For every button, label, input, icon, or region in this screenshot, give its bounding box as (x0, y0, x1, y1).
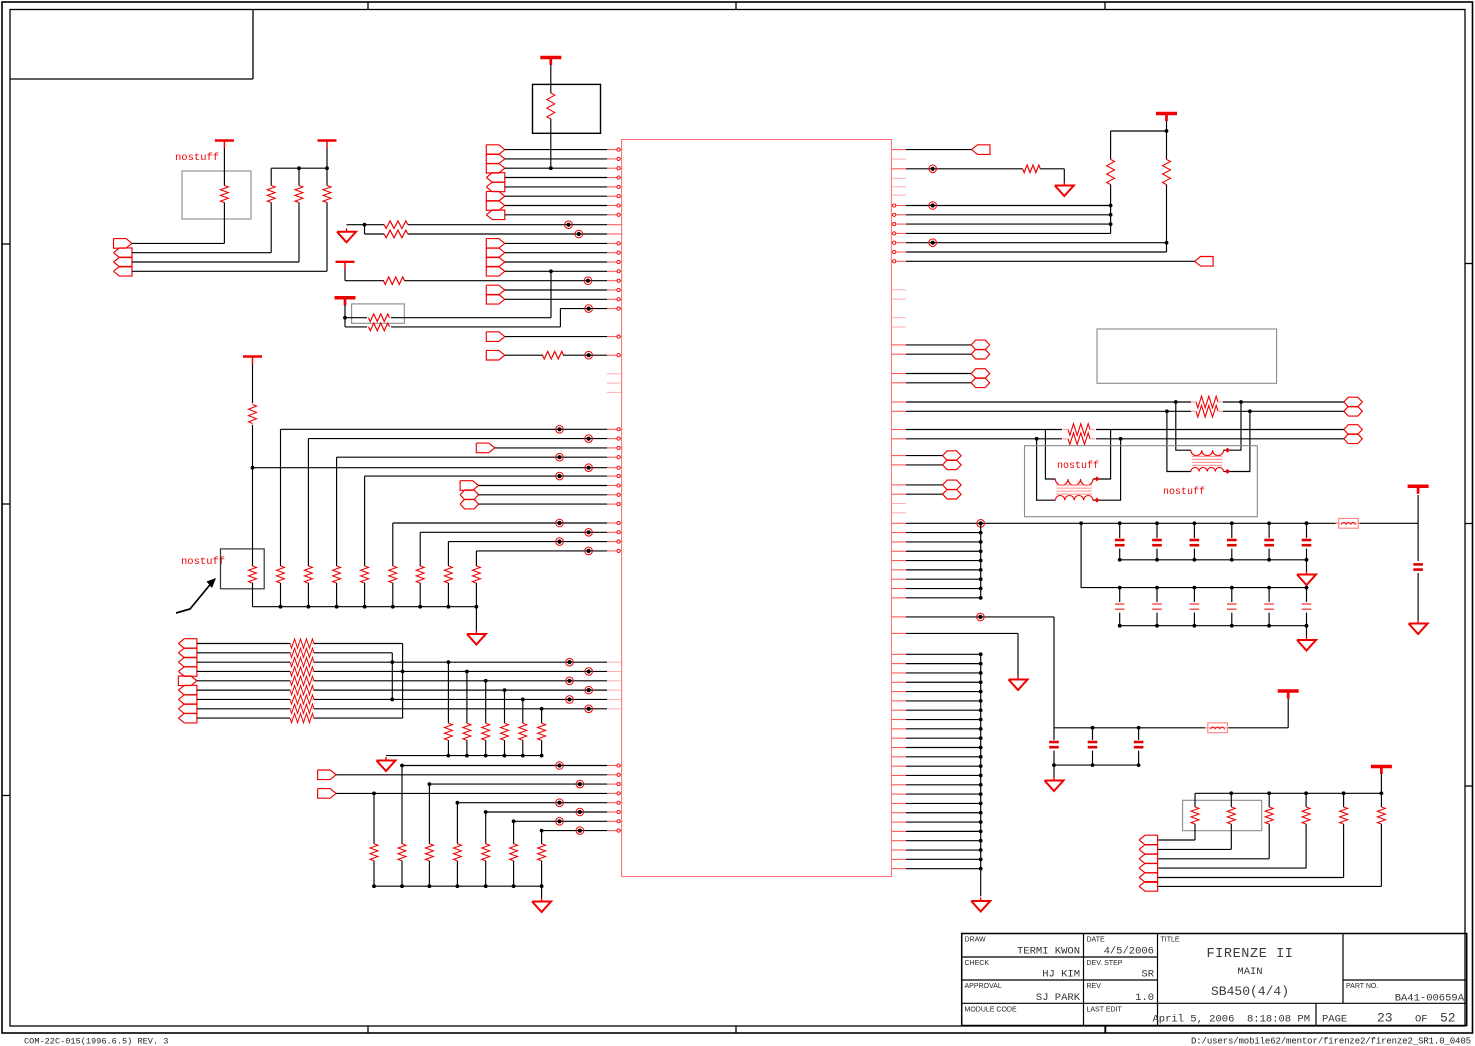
wire (1230, 824, 1232, 849)
wire (1193, 613, 1195, 626)
pin (607, 205, 622, 207)
net arrow (in) (114, 248, 133, 258)
svg-text:nostuff: nostuff (1057, 460, 1099, 472)
pin (891, 681, 906, 683)
wire (1111, 130, 1167, 132)
wire (1092, 751, 1094, 766)
junction (465, 754, 469, 758)
wire (1380, 774, 1382, 793)
wire (290, 643, 292, 645)
junction (1091, 726, 1095, 730)
junction (1079, 521, 1083, 525)
wire (223, 203, 225, 244)
wire (1156, 613, 1158, 626)
wire (906, 719, 981, 721)
pin (607, 820, 622, 822)
svg-text:HJ KIM: HJ KIM (1042, 969, 1080, 981)
net arrow (in) (972, 145, 991, 155)
pin (607, 195, 622, 197)
wire (505, 167, 607, 169)
wire (1268, 613, 1270, 626)
power VCC symbol (318, 139, 337, 141)
wire (906, 541, 981, 543)
wire (1306, 523, 1308, 538)
junction (979, 839, 983, 843)
capacitor C8 (1115, 603, 1125, 605)
junction (503, 688, 507, 692)
resistor R10 (369, 323, 390, 331)
border tick (367, 2, 369, 10)
pin (607, 233, 622, 235)
resistor R34 (538, 844, 546, 861)
junction (979, 549, 983, 553)
junction (400, 764, 404, 768)
wire (1343, 793, 1345, 807)
net arrow (in) (486, 173, 505, 183)
wire (391, 317, 551, 319)
junction (1304, 791, 1308, 795)
wire (447, 542, 449, 566)
wire (197, 652, 290, 654)
net arrow (out) (486, 145, 505, 155)
wire (402, 765, 607, 767)
svg-text:nostuff: nostuff (175, 152, 219, 164)
junction (372, 884, 376, 888)
svg-text:PART NO.: PART NO. (1346, 983, 1378, 990)
wire (505, 270, 607, 272)
border tick (2, 243, 10, 245)
wire (906, 550, 981, 552)
pin (607, 382, 622, 384)
wire (522, 699, 524, 723)
net arrow (out) (486, 257, 505, 267)
net arrow (in) (1139, 845, 1158, 855)
pin (607, 541, 622, 543)
junction (979, 792, 983, 796)
test point junction (585, 705, 593, 713)
power VCC symbol (1156, 112, 1177, 116)
wire (1063, 169, 1065, 182)
wire (1306, 613, 1308, 626)
ground (1063, 182, 1065, 186)
wire (364, 225, 366, 234)
capacitor C15 (1088, 741, 1098, 744)
net arrow (out) (486, 163, 505, 173)
net arrow (out) (460, 481, 479, 491)
wire (906, 728, 981, 730)
junction (1137, 763, 1141, 767)
pin (607, 698, 622, 700)
resistor (bus termination) (290, 639, 314, 648)
pin (607, 494, 622, 496)
wire (1053, 751, 1055, 766)
resistor R3 (267, 186, 275, 203)
wire (505, 195, 607, 197)
wire (505, 289, 607, 291)
wire (364, 583, 366, 607)
wire (1119, 588, 1121, 602)
junction (979, 596, 983, 600)
net arrow (in) (486, 182, 505, 192)
pin (607, 783, 622, 785)
junction (1193, 586, 1197, 590)
border tick (1465, 523, 1473, 525)
wire (336, 792, 607, 794)
resistor R2 (nostuff) (220, 186, 228, 203)
junction (1380, 791, 1384, 795)
wire (1166, 185, 1168, 252)
nostuff box (resistors) (1183, 800, 1262, 830)
wire (197, 689, 290, 691)
wire (336, 583, 338, 607)
wire (405, 280, 608, 282)
pin (891, 728, 906, 730)
wire (1096, 429, 1344, 431)
wire (314, 652, 392, 654)
net arrow (in) (1139, 854, 1158, 864)
wire (550, 119, 552, 168)
capacitor C20 (1413, 563, 1423, 566)
capacitor C7 (1302, 539, 1312, 542)
wire (1053, 728, 1055, 740)
wire (1224, 411, 1250, 471)
net arrow (in) (1195, 257, 1214, 267)
bidirectional net connector (943, 460, 962, 470)
wire (906, 429, 1062, 431)
resistor R25 (501, 723, 509, 740)
nostuff box (resistor pair) (352, 304, 405, 323)
wire (541, 886, 543, 898)
wire (132, 270, 327, 272)
pin (891, 512, 906, 514)
wire (1096, 438, 1344, 440)
net arrow (out) (486, 267, 505, 277)
pin (607, 680, 622, 682)
wire (1195, 792, 1381, 794)
junction (1267, 791, 1271, 795)
junction (1155, 521, 1159, 525)
resistor R15 (304, 566, 312, 583)
junction (1155, 624, 1159, 628)
pin (891, 326, 906, 328)
junction (1137, 726, 1141, 730)
wire (906, 532, 981, 534)
wire (1053, 617, 1055, 728)
wire (447, 740, 449, 755)
wire (485, 681, 487, 723)
test point junction (566, 658, 574, 666)
resistor R27 (538, 723, 546, 740)
junction (1165, 409, 1169, 413)
wire (1093, 430, 1111, 480)
junction (1305, 558, 1309, 562)
bidirectional net connector (460, 499, 479, 509)
pin (891, 317, 906, 319)
svg-text:MODULE CODE: MODULE CODE (965, 1006, 1017, 1013)
wire (1231, 549, 1233, 560)
pin (891, 821, 906, 823)
junction (979, 718, 983, 722)
test point junction (556, 538, 564, 546)
capacitor C2 (1115, 539, 1125, 542)
resistor R24 (482, 723, 490, 740)
wire (1017, 633, 1019, 676)
wire (1417, 573, 1419, 620)
junction (1035, 437, 1039, 441)
wire (906, 709, 981, 711)
wire (1193, 549, 1195, 560)
pin (607, 689, 622, 691)
svg-text:April 5, 2006 8:18:08 PM: April 5, 2006 8:18:08 PM (1152, 1014, 1310, 1026)
test point junction (929, 202, 937, 210)
wire (132, 261, 299, 263)
bidirectional net connector (971, 378, 990, 388)
wire (336, 774, 607, 776)
pin (891, 719, 906, 721)
junction (979, 727, 983, 731)
pin (891, 560, 906, 562)
svg-text:TITLE: TITLE (1161, 937, 1180, 944)
wire (550, 65, 552, 93)
junction (979, 587, 983, 591)
wire (906, 774, 981, 776)
pin (607, 186, 622, 188)
junction (1230, 521, 1234, 525)
wire (290, 680, 292, 682)
wire (1224, 402, 1242, 450)
junction (343, 316, 347, 320)
test point junction (977, 520, 985, 528)
wire (906, 691, 981, 693)
pin (891, 691, 906, 693)
pin (891, 700, 906, 702)
wire (479, 503, 607, 505)
pin (891, 438, 906, 440)
wire (906, 464, 943, 466)
pin (891, 455, 906, 457)
net arrow (out) (486, 191, 505, 201)
wire (906, 830, 981, 832)
wire (1417, 495, 1419, 523)
wire (428, 861, 430, 886)
pin (607, 811, 622, 813)
wire (1158, 858, 1270, 860)
pin (891, 765, 906, 767)
wire (1305, 793, 1307, 807)
wire (1268, 793, 1270, 807)
junction (1165, 129, 1169, 133)
wire (132, 242, 224, 244)
wire (347, 224, 365, 226)
pin (607, 670, 622, 672)
wire (307, 583, 309, 607)
wire (344, 305, 346, 327)
svg-text:APPROVAL: APPROVAL (965, 983, 1002, 990)
pin (607, 242, 622, 244)
junction (979, 690, 983, 694)
svg-text:FIRENZE II: FIRENZE II (1206, 947, 1293, 962)
pin (891, 484, 906, 486)
test point junction (576, 827, 584, 835)
wire (1360, 522, 1419, 524)
junction (363, 605, 367, 609)
pin (607, 280, 622, 282)
wire (1223, 401, 1344, 403)
wire (197, 708, 290, 710)
wire (447, 583, 449, 607)
pin (607, 391, 622, 393)
junction (979, 662, 983, 666)
junction (390, 660, 394, 664)
power VCC symbol (243, 355, 262, 357)
top-left title box (252, 10, 254, 80)
ground (385, 757, 387, 761)
svg-text:OF: OF (1415, 1014, 1428, 1026)
pin (607, 467, 622, 469)
inductor L2 (ferrite bead) (1208, 723, 1228, 733)
wire (906, 672, 981, 674)
wire (1306, 626, 1308, 637)
junction (1052, 763, 1056, 767)
pin (607, 167, 622, 169)
pin (891, 158, 906, 160)
resistor R22 (444, 723, 452, 740)
wire (1119, 549, 1121, 560)
junction (1091, 763, 1095, 767)
wire (505, 177, 607, 179)
junction (484, 679, 488, 683)
wire (906, 663, 981, 665)
wire (906, 784, 981, 786)
resistor R45 (1377, 807, 1385, 824)
pin (891, 578, 906, 580)
junction (979, 540, 983, 544)
test point junction (556, 453, 564, 461)
wire (466, 740, 468, 755)
junction (512, 884, 516, 888)
svg-text:MAIN: MAIN (1237, 966, 1262, 978)
junction (979, 811, 983, 815)
test point junction (585, 351, 593, 359)
test point junction (585, 547, 593, 555)
wire (1138, 728, 1140, 740)
wire (401, 861, 403, 886)
junction (1118, 586, 1122, 590)
wire (906, 747, 981, 749)
resistor (bus termination) (290, 648, 314, 657)
resistor R32 (482, 844, 490, 861)
wire (505, 158, 607, 160)
wire (314, 680, 607, 682)
test point junction (566, 696, 574, 704)
wire (420, 531, 607, 533)
wire (1167, 411, 1191, 471)
junction (456, 884, 460, 888)
junction (503, 754, 507, 758)
wire (447, 662, 449, 723)
wire (374, 885, 542, 887)
junction (1342, 791, 1346, 795)
wire (197, 680, 290, 682)
wire (1158, 867, 1307, 869)
pin (891, 830, 906, 832)
wire (906, 700, 981, 702)
pin (607, 261, 622, 263)
pin (607, 774, 622, 776)
wire (252, 425, 254, 566)
wire (514, 820, 607, 822)
pin (607, 447, 622, 449)
wire (345, 326, 367, 328)
wire (326, 168, 328, 185)
wire (1305, 824, 1307, 868)
wire (1287, 699, 1289, 728)
wire (1119, 613, 1121, 626)
net arrow (out) (486, 285, 505, 295)
junction (1230, 586, 1234, 590)
junction (1165, 241, 1169, 245)
wire (290, 661, 292, 663)
net arrow (out) (318, 789, 337, 799)
junction (363, 223, 367, 227)
pin (891, 410, 906, 412)
wire (1380, 824, 1382, 886)
wire (906, 737, 981, 739)
pin (607, 354, 622, 356)
wire (457, 802, 607, 804)
wire (485, 740, 487, 755)
pin (607, 177, 622, 179)
net arrow (in) (1139, 863, 1158, 873)
test point junction (565, 221, 573, 229)
junction (979, 764, 983, 768)
junction (484, 810, 488, 814)
wire (1231, 613, 1233, 626)
resistor R26 (519, 723, 527, 740)
capacitor C5 (1227, 539, 1237, 542)
junction (549, 166, 553, 170)
wire (314, 643, 403, 645)
wire (504, 740, 506, 755)
wire (393, 522, 607, 524)
pin (607, 792, 622, 794)
pin (891, 214, 906, 216)
wire (1193, 523, 1195, 538)
junction (390, 698, 394, 702)
wire (1040, 168, 1064, 170)
junction (1174, 400, 1178, 404)
pin (891, 260, 906, 262)
wire (401, 766, 403, 844)
wire (1306, 560, 1308, 571)
wire (906, 382, 971, 384)
net arrow (in) (178, 704, 197, 714)
junction (1248, 409, 1252, 413)
junction (540, 754, 544, 758)
junction (979, 680, 983, 684)
test point junction (585, 305, 593, 313)
wire (271, 167, 327, 169)
svg-text:23: 23 (1377, 1011, 1393, 1026)
wire (475, 607, 477, 631)
bidirectional net connector (460, 490, 479, 500)
pin (891, 429, 906, 431)
pin (891, 168, 906, 170)
ground (1053, 777, 1055, 781)
svg-text:REV: REV (1087, 983, 1102, 990)
power VCC symbol (215, 139, 234, 141)
wire (906, 756, 981, 758)
